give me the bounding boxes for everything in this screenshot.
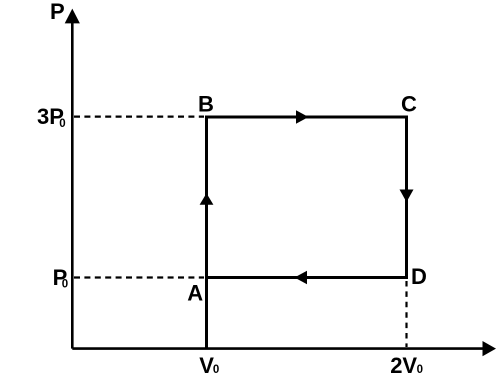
svg-text:P: P bbox=[50, 0, 65, 24]
svg-text:P0: P0 bbox=[53, 265, 69, 291]
svg-text:D: D bbox=[411, 264, 427, 289]
svg-text:A: A bbox=[187, 281, 203, 306]
svg-text:C: C bbox=[401, 92, 417, 117]
svg-text:B: B bbox=[198, 92, 214, 117]
svg-text:3P0: 3P0 bbox=[37, 104, 66, 130]
